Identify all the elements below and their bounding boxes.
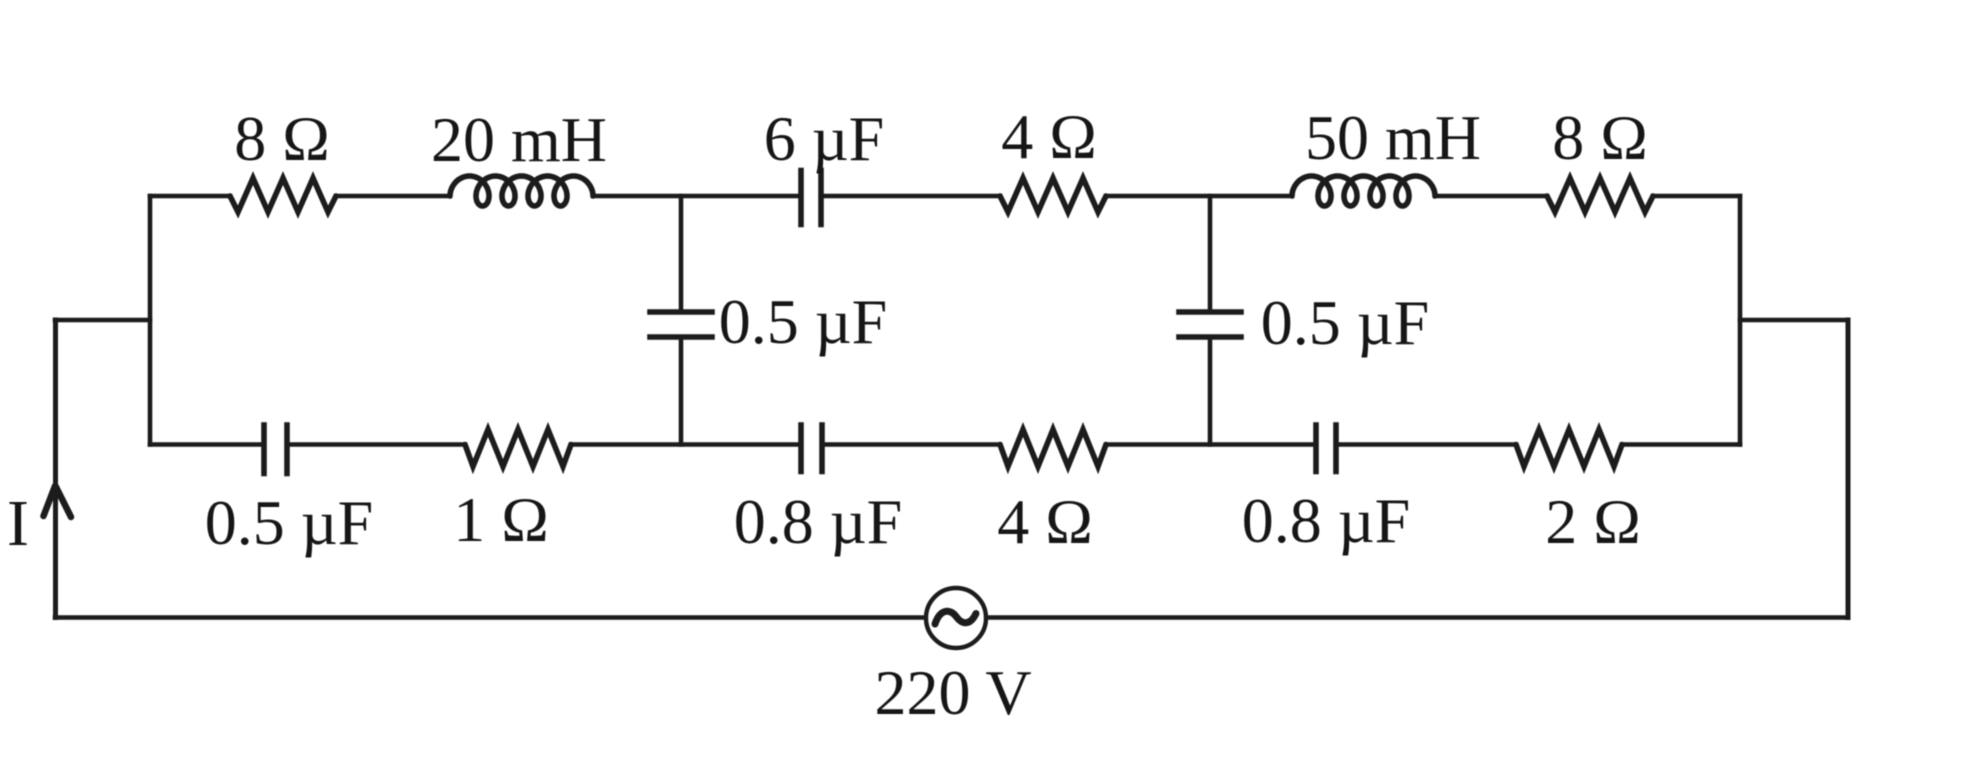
svg-text:1 Ω: 1 Ω [453,484,549,555]
current arrow [44,486,56,516]
wire: right stub [1740,318,1848,323]
node branch 1 vertical wire [679,196,684,312]
AC source 220 V [926,588,986,648]
wire: bottom rail [55,615,926,620]
svg-text:0.5 µF: 0.5 µF [1261,287,1429,358]
svg-text:8 Ω: 8 Ω [1552,102,1648,173]
inductor 20 mH [450,176,593,206]
wire: middle-bottom rail [150,442,264,447]
resistor 2 Ω [1516,430,1622,467]
svg-text:0.8 µF: 0.8 µF [1242,485,1410,556]
wire: left inner vertical [148,196,153,445]
svg-text:4 Ω: 4 Ω [997,486,1093,557]
capacitor 0.5 µF branch 1 [650,309,712,315]
resistor 8 Ω top-right [1547,178,1653,212]
svg-text:0.5 µF: 0.5 µF [205,487,373,558]
wire: left outer vertical [53,320,58,618]
node branch 2 vertical wire [1208,196,1213,312]
wire: right inner vertical [1738,196,1743,445]
svg-text:6 µF: 6 µF [764,103,884,174]
svg-text:8 Ω: 8 Ω [234,103,330,174]
capacitor 0.5 µF branch 2 [1179,309,1241,315]
svg-text:20 mH: 20 mH [431,104,607,175]
capacitor 0.5 µF bottom-left [261,425,267,474]
wire: right outer vertical [1846,320,1851,618]
resistor 4 Ω top [1000,178,1106,212]
resistor 8 Ω top-left [230,178,336,212]
capacitor 0.8 µF bottom-middle [798,425,804,472]
resistor 1 Ω [465,430,571,467]
inductor 50 mH [1292,176,1435,206]
svg-text:2 Ω: 2 Ω [1545,486,1641,557]
resistor 4 Ω bottom [1000,430,1106,467]
capacitor 6 µF [798,171,804,225]
svg-text:4 Ω: 4 Ω [1001,101,1097,172]
capacitor 0.8 µF bottom-right [1313,425,1319,472]
svg-text:50 mH: 50 mH [1305,102,1481,173]
wire: left stub [55,318,150,323]
svg-text:I: I [7,487,29,560]
svg-text:220 V: 220 V [874,657,1031,728]
svg-text:0.8 µF: 0.8 µF [734,486,902,557]
wire: top rail [150,194,230,199]
svg-text:0.5 µF: 0.5 µF [719,286,887,357]
